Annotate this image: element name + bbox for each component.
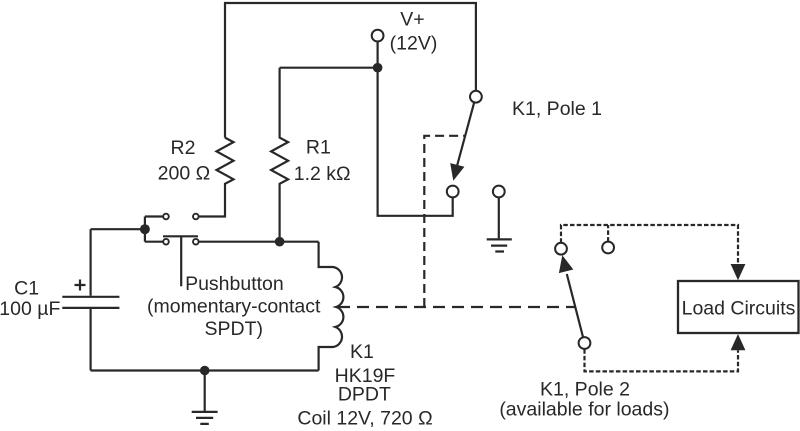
svg-text:K1, Pole 1: K1, Pole 1 xyxy=(512,98,602,120)
svg-text:V+: V+ xyxy=(400,9,424,31)
svg-text:Pushbutton: Pushbutton xyxy=(185,273,284,295)
svg-text:K1, Pole 2: K1, Pole 2 xyxy=(540,379,630,401)
svg-text:R2: R2 xyxy=(171,137,196,159)
svg-text:Coil 12V, 720 Ω: Coil 12V, 720 Ω xyxy=(297,407,432,429)
svg-text:(available for loads): (available for loads) xyxy=(499,399,669,421)
svg-text:SPDT): SPDT) xyxy=(205,318,264,340)
svg-text:C1: C1 xyxy=(14,278,39,300)
svg-text:Load Circuits: Load Circuits xyxy=(682,297,796,319)
svg-text:DPDT: DPDT xyxy=(338,384,391,406)
svg-text:(12V): (12V) xyxy=(390,32,438,54)
svg-text:K1: K1 xyxy=(350,341,374,363)
svg-text:1.2 kΩ: 1.2 kΩ xyxy=(294,163,351,185)
svg-text:200 Ω: 200 Ω xyxy=(158,162,211,184)
svg-text:(momentary-contact: (momentary-contact xyxy=(147,295,321,317)
svg-text:100 µF: 100 µF xyxy=(0,298,60,320)
svg-text:R1: R1 xyxy=(306,137,331,159)
